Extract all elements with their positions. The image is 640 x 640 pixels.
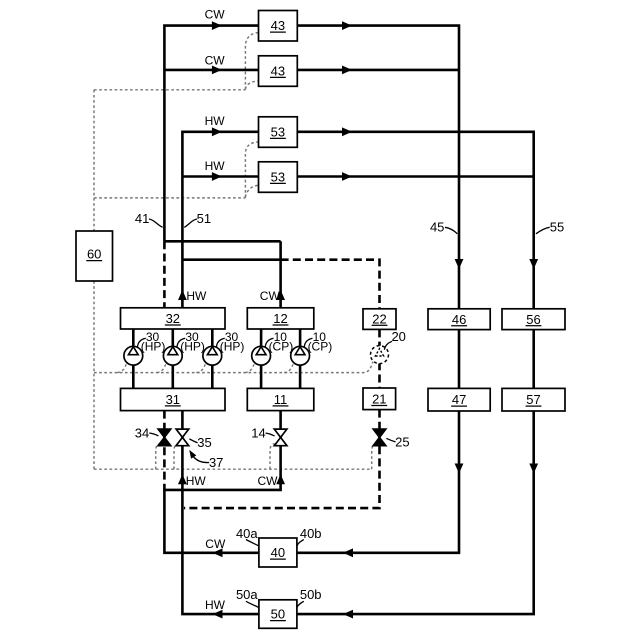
svg-text:(CP): (CP) <box>308 339 333 353</box>
svg-text:43: 43 <box>271 64 285 79</box>
svg-text:43: 43 <box>271 18 285 33</box>
svg-text:53: 53 <box>271 125 285 140</box>
svg-text:HW: HW <box>205 598 226 612</box>
svg-text:31: 31 <box>166 392 180 407</box>
svg-text:50a: 50a <box>236 587 258 602</box>
svg-text:57: 57 <box>526 392 540 407</box>
svg-text:20: 20 <box>391 329 405 344</box>
svg-text:51: 51 <box>197 211 211 226</box>
svg-text:41: 41 <box>135 211 149 226</box>
svg-text:47: 47 <box>452 392 466 407</box>
svg-text:45: 45 <box>430 220 444 235</box>
svg-text:25: 25 <box>395 435 409 450</box>
svg-text:32: 32 <box>166 311 180 326</box>
svg-text:(HP): (HP) <box>220 339 245 353</box>
svg-text:22: 22 <box>372 311 386 326</box>
svg-text:HW: HW <box>186 289 207 303</box>
svg-text:12: 12 <box>273 311 287 326</box>
svg-text:46: 46 <box>452 312 466 327</box>
svg-text:21: 21 <box>372 392 386 407</box>
svg-text:35: 35 <box>197 435 211 450</box>
svg-text:CW: CW <box>260 289 281 303</box>
svg-text:CW: CW <box>205 54 226 68</box>
svg-text:11: 11 <box>274 392 288 407</box>
svg-text:55: 55 <box>550 220 564 235</box>
svg-text:CW: CW <box>258 474 279 488</box>
svg-text:34: 34 <box>135 425 149 440</box>
svg-text:50: 50 <box>271 607 285 622</box>
svg-text:50b: 50b <box>300 587 322 602</box>
svg-text:(HP): (HP) <box>180 339 205 353</box>
svg-text:40a: 40a <box>236 526 258 541</box>
svg-text:(CP): (CP) <box>269 339 294 353</box>
svg-text:(HP): (HP) <box>141 339 166 353</box>
svg-text:CW: CW <box>205 537 226 551</box>
svg-text:60: 60 <box>87 247 101 262</box>
svg-text:14: 14 <box>251 425 265 440</box>
svg-text:53: 53 <box>271 170 285 185</box>
svg-text:HW: HW <box>186 474 207 488</box>
svg-text:37: 37 <box>209 455 223 470</box>
svg-text:HW: HW <box>205 114 226 128</box>
svg-text:40b: 40b <box>300 526 322 541</box>
svg-text:56: 56 <box>526 312 540 327</box>
svg-text:CW: CW <box>205 8 226 22</box>
svg-text:HW: HW <box>205 159 226 173</box>
svg-text:40: 40 <box>271 545 285 560</box>
